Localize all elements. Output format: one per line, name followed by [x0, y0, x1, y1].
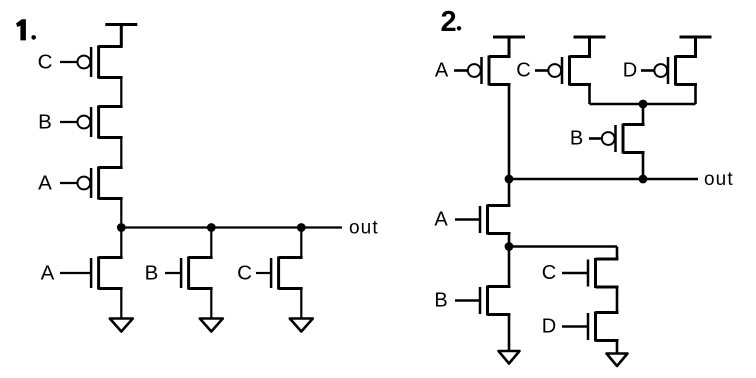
transistor Q13 source stub: [596, 286, 619, 289]
wire out to Q11 drain: [508, 179, 511, 206]
transistor Q12 drain stub: [488, 285, 511, 288]
wire C/D junction horizontal: [590, 103, 696, 106]
wire Q11 source to n2: [508, 234, 511, 247]
wire right branch down to Q13: [616, 247, 619, 260]
svg-text:B: B: [570, 128, 583, 150]
transistor Q10 gate bubble: [602, 132, 615, 145]
svg-text:B: B: [145, 262, 159, 285]
wire out net (circuit 2): [509, 178, 698, 181]
transistor Q10 drain stub: [623, 151, 645, 154]
transistor Q1 gate bubble: [77, 56, 90, 69]
ground GND1a: [110, 319, 133, 332]
transistor Q2 source stub: [99, 105, 123, 108]
wire Q7 drain to out: [508, 85, 511, 180]
transistor Q12 source stub: [488, 313, 511, 316]
junction node n1 (C,D drains): [639, 100, 648, 109]
transistor Q5 gate bar: [180, 258, 183, 288]
transistor Q3 gate bar: [90, 168, 93, 198]
circuit 2 heading label: [441, 6, 462, 38]
transistor Q4 channel bar: [97, 257, 100, 290]
transistor Q3 channel bar: [97, 167, 100, 200]
transistor Q12 gate bar: [479, 287, 482, 314]
wire out net (circuit 1): [121, 226, 342, 228]
transistor Q6 gate wire: [256, 272, 271, 274]
transistor Q5 drain stub: [189, 256, 213, 259]
svg-text:D: D: [623, 60, 637, 82]
ground GND2a: [499, 351, 520, 364]
transistor Q12 gate wire: [455, 299, 480, 302]
transistor Q8 channel bar: [568, 56, 571, 86]
svg-text:C: C: [38, 51, 53, 74]
transistor Q10 channel bar: [622, 124, 625, 154]
transistor Q3 source stub: [99, 166, 123, 169]
transistor Q6 channel bar: [277, 257, 280, 290]
transistor Q12 channel bar: [486, 286, 489, 316]
svg-text:out: out: [349, 218, 379, 239]
transistor Q1 gate bar: [90, 47, 93, 77]
wire Q5 source to gnd: [210, 289, 212, 319]
wire Q6 source to gnd: [300, 289, 302, 319]
transistor Q10 gate bar: [614, 125, 617, 152]
transistor Q2 channel bar: [97, 106, 100, 139]
wire Q12 source to gnd: [508, 315, 511, 352]
junction node out1-a: [117, 223, 126, 232]
svg-text:C: C: [516, 60, 530, 82]
transistor Q11 gate wire: [455, 218, 480, 221]
junction node n2 (below Q11): [505, 242, 514, 251]
power VDD rail VDD2c: [680, 37, 712, 57]
power VDD rail VDD2a: [493, 37, 525, 57]
junction node out2-b: [639, 175, 648, 184]
transistor Q4 gate wire: [60, 272, 91, 274]
transistor Q14 gate bar: [587, 313, 590, 340]
transistor Q14 channel bar: [594, 312, 597, 342]
transistor Q7 source stub: [489, 55, 511, 58]
transistor Q7 gate wire: [454, 69, 468, 72]
svg-text:C: C: [542, 262, 556, 284]
transistor Q2 gate wire: [60, 121, 77, 123]
transistor Q13 gate wire: [562, 272, 588, 275]
transistor Q1 source stub: [99, 45, 123, 48]
ground GND1c: [290, 319, 313, 332]
wire out to Q5 drain: [210, 228, 212, 259]
transistor Q11 drain stub: [488, 204, 511, 207]
transistor Q8 source stub: [570, 55, 592, 58]
transistor Q5 gate wire: [165, 272, 181, 274]
transistor Q11 source stub: [488, 232, 511, 235]
transistor Q7 channel bar: [488, 56, 491, 86]
transistor Q3 gate wire: [60, 182, 77, 184]
transistor Q4 drain stub: [99, 256, 123, 259]
svg-text:B: B: [434, 290, 447, 312]
transistor Q14 drain stub: [596, 311, 619, 314]
transistor Q13 channel bar: [594, 258, 597, 288]
junction node out1-b: [207, 223, 216, 232]
transistor Q11 channel bar: [486, 205, 489, 235]
transistor Q13 gate bar: [587, 260, 590, 287]
wire n2 horizontal to right branch: [509, 245, 617, 248]
wire Q1 drain to Q2 source: [120, 78, 122, 107]
transistor Q2 gate bubble: [77, 116, 90, 129]
svg-text:C: C: [237, 262, 252, 285]
svg-text:B: B: [38, 111, 52, 134]
junction node out2-a: [505, 175, 514, 184]
wire Q2 drain to Q3 source: [120, 138, 122, 168]
transistor Q7 gate bubble: [468, 64, 481, 77]
transistor Q9 channel bar: [674, 56, 677, 86]
transistor Q6 source stub: [279, 287, 303, 290]
transistor Q2 gate bar: [90, 107, 93, 137]
transistor Q11 gate bar: [479, 206, 482, 233]
svg-text:out: out: [704, 169, 734, 190]
transistor Q14 gate wire: [562, 325, 588, 328]
ground GND2b: [607, 354, 628, 367]
transistor Q8 gate bar: [561, 57, 564, 84]
transistor Q4 source stub: [99, 287, 123, 290]
wire out to Q6 drain: [300, 228, 302, 259]
circuit 1 heading label: [16, 19, 36, 40]
transistor Q10 source stub: [623, 123, 645, 126]
wire Q13 source to Q14 drain: [616, 287, 619, 313]
transistor Q3 gate bubble: [77, 177, 90, 190]
ground GND1b: [200, 319, 223, 332]
transistor Q1 drain stub: [99, 76, 123, 79]
wire Q14 source to gnd: [616, 341, 619, 354]
transistor Q13 drain stub: [596, 258, 619, 261]
transistor Q14 source stub: [596, 339, 619, 342]
wire Q9 drain down: [694, 85, 697, 105]
transistor Q9 gate wire: [641, 69, 654, 72]
transistor Q8 drain stub: [570, 83, 592, 86]
transistor Q3 drain stub: [99, 197, 123, 200]
transistor Q10 gate wire: [589, 137, 602, 140]
svg-text:D: D: [542, 316, 556, 338]
junction node out1-c: [297, 223, 306, 232]
transistor Q6 drain stub: [279, 256, 303, 259]
svg-text:A: A: [435, 60, 449, 82]
wire Q4 source to gnd: [120, 289, 122, 319]
power VDD rail VDD1: [105, 25, 137, 47]
transistor Q4 gate bar: [90, 258, 93, 288]
transistor Q9 source stub: [676, 55, 698, 58]
transistor Q5 channel bar: [187, 257, 190, 290]
svg-text:A: A: [38, 172, 52, 195]
transistor Q2 drain stub: [99, 136, 123, 139]
svg-text:A: A: [434, 209, 448, 231]
wire Q3 drain down to out node: [120, 199, 122, 228]
wire out to Q4 drain: [120, 228, 122, 259]
transistor Q5 source stub: [189, 287, 213, 290]
wire Q8 drain down: [588, 85, 591, 105]
wire n2 to Q12 drain: [508, 247, 511, 287]
svg-text:A: A: [41, 262, 55, 285]
wire n1 to Q10 source: [642, 104, 645, 125]
svg-text:2: 2: [441, 6, 457, 38]
transistor Q8 gate wire: [535, 69, 548, 72]
transistor Q7 gate bar: [480, 57, 483, 84]
transistor Q9 drain stub: [676, 83, 698, 86]
transistor Q6 gate bar: [270, 258, 273, 288]
transistor Q9 gate bubble: [654, 64, 667, 77]
power VDD rail VDD2b: [574, 37, 606, 57]
wire Q10 drain to out: [642, 153, 645, 180]
transistor Q1 channel bar: [97, 46, 100, 79]
transistor Q7 drain stub: [489, 83, 511, 86]
transistor Q9 gate bar: [667, 57, 670, 84]
transistor Q8 gate bubble: [548, 64, 561, 77]
transistor Q1 gate wire: [60, 61, 77, 63]
